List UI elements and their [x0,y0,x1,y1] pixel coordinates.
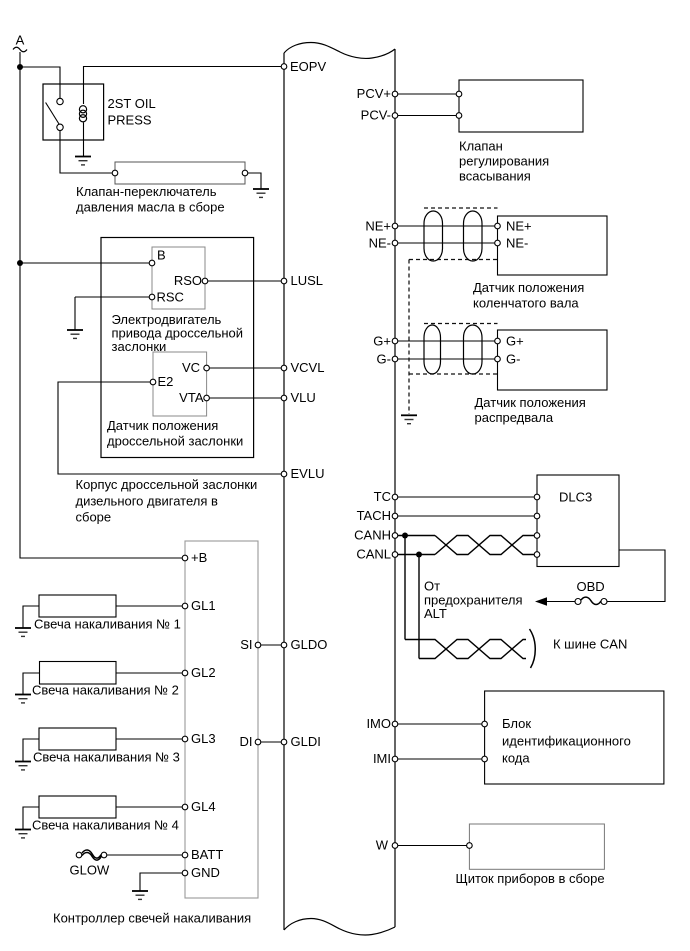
svg-text:2ST OIL: 2ST OIL [108,96,156,111]
svg-text:Клапан: Клапан [459,138,503,153]
svg-text:GLOW: GLOW [70,863,110,878]
svg-text:дизельного двигателя в: дизельного двигателя в [76,493,219,508]
svg-text:DLC3: DLC3 [559,490,592,505]
svg-text:IMO: IMO [366,716,391,731]
svg-text:CANH: CANH [354,528,391,543]
svg-text:BATT: BATT [191,847,223,862]
svg-text:ALT: ALT [424,606,447,621]
svg-text:OBD: OBD [577,579,605,594]
svg-text:NE-: NE- [369,236,391,251]
svg-text:всасывания: всасывания [459,168,531,183]
svg-text:EOPV: EOPV [290,59,326,74]
svg-text:Свеча накаливания № 3: Свеча накаливания № 3 [33,750,180,765]
svg-text:Контроллер свечей накаливания: Контроллер свечей накаливания [53,911,251,926]
svg-text:G-: G- [506,352,520,367]
svg-text:GND: GND [191,865,220,880]
svg-text:NE+: NE+ [365,219,391,234]
svg-text:распредвала: распредвала [475,410,554,425]
svg-text:G+: G+ [506,334,524,349]
svg-text:Клапан-переключатель: Клапан-переключатель [76,184,217,199]
svg-text:VTA: VTA [179,390,204,405]
svg-text:PCV+: PCV+ [357,86,391,101]
svg-text:RSC: RSC [157,290,184,305]
svg-text:Блок: Блок [502,716,531,731]
svg-text:TC: TC [374,489,391,504]
svg-text:NE-: NE- [506,236,528,251]
svg-text:От: От [424,579,440,594]
svg-text:EVLU: EVLU [291,466,325,481]
svg-text:GL2: GL2 [191,665,216,680]
svg-text:дроссельной заслонки: дроссельной заслонки [107,433,243,448]
svg-text:регулирования: регулирования [459,153,549,168]
svg-text:GL4: GL4 [191,799,216,814]
svg-text:CANL: CANL [356,547,391,562]
svg-text:Щиток приборов в сборе: Щиток приборов в сборе [456,871,605,886]
svg-text:Датчик положения: Датчик положения [107,418,218,433]
svg-text:VC: VC [182,360,200,375]
svg-text:заслонки: заслонки [112,339,167,354]
svg-text:К шине CAN: К шине CAN [553,637,627,652]
svg-text:GL3: GL3 [191,731,216,746]
svg-text:A: A [16,33,25,48]
svg-text:PCV-: PCV- [361,108,391,123]
svg-text:GLDI: GLDI [291,734,321,749]
svg-text:+B: +B [191,550,207,565]
svg-text:Датчик положения: Датчик положения [475,395,586,410]
svg-text:G-: G- [377,352,391,367]
svg-text:NE+: NE+ [506,219,532,234]
svg-text:E2: E2 [158,374,174,389]
svg-text:G+: G+ [373,334,391,349]
svg-text:PRESS: PRESS [108,113,152,128]
svg-text:GLDO: GLDO [291,637,328,652]
svg-text:сборе: сборе [76,510,112,525]
svg-text:коленчатого вала: коленчатого вала [473,296,579,311]
svg-text:LUSL: LUSL [291,273,324,288]
svg-text:B: B [157,248,166,263]
svg-text:RSO: RSO [174,273,202,288]
svg-text:TACH: TACH [357,508,391,523]
svg-text:VLU: VLU [291,390,316,405]
svg-text:GL1: GL1 [191,598,216,613]
svg-text:Свеча накаливания № 1: Свеча накаливания № 1 [34,617,181,632]
svg-text:VCVL: VCVL [291,360,325,375]
svg-text:Датчик положения: Датчик положения [473,280,584,295]
svg-text:Корпус дроссельной заслонки: Корпус дроссельной заслонки [76,477,258,492]
svg-text:кода: кода [502,751,530,766]
svg-text:Свеча накаливания № 2: Свеча накаливания № 2 [32,683,179,698]
svg-text:IMI: IMI [373,751,391,766]
svg-text:давления масла в сборе: давления масла в сборе [76,199,225,214]
svg-text:DI: DI [240,734,253,749]
svg-text:идентификационного: идентификационного [502,733,631,748]
svg-text:SI: SI [240,637,252,652]
svg-text:Свеча накаливания № 4: Свеча накаливания № 4 [32,818,179,833]
svg-text:W: W [376,838,389,853]
